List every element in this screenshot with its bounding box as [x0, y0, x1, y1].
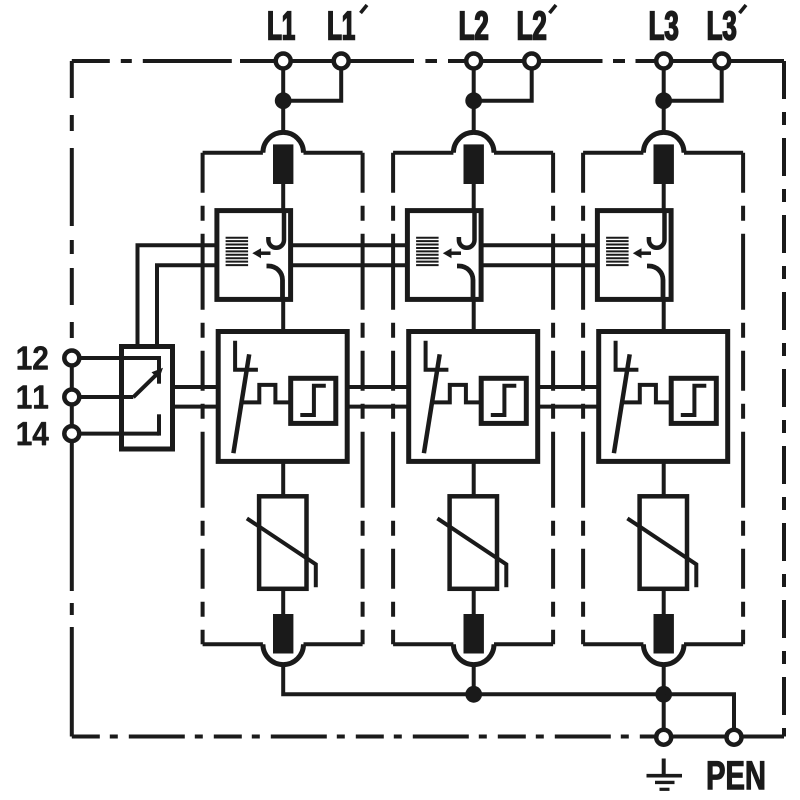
wire module 1 top rail right [304, 151, 363, 155]
wire module 3 top rail right [684, 151, 743, 155]
trigger bus lower wire: spark gap 1 to spark gap 2 [291, 263, 408, 267]
wire bottom disconnector to PEN bus [472, 665, 476, 695]
wire module 3 bottom rail right [684, 642, 743, 646]
trigger bus upper wire: remote box to spark gap 1 [138, 245, 217, 346]
label L1' [329, 12, 355, 40]
device border top edge [72, 59, 240, 63]
spark gap arc-quenching plates [416, 238, 439, 265]
spark gap arc-quenching plates [226, 238, 249, 265]
monitoring/disconnector box module 2 [409, 332, 538, 462]
signal bus lower wire: box 2 to box 3 [538, 405, 599, 409]
disconnect switch blade [614, 354, 630, 453]
wire disconnector box to varistor [472, 461, 476, 496]
junction node module 2 on PEN bus [465, 686, 482, 703]
terminal L1 [276, 54, 291, 69]
step function symbol [491, 386, 517, 415]
step function symbol [300, 386, 326, 415]
trigger bus lower wire: remote box to spark gap 1 [157, 265, 217, 346]
terminal L2 [466, 54, 481, 69]
terminal 14 [64, 426, 79, 441]
monitoring/disconnector box module 1 [218, 332, 347, 462]
wire L3' terminal to junction [664, 68, 722, 101]
wire module 1 to PEN bus and down to PEN terminal [283, 665, 734, 728]
label 12 [18, 346, 48, 369]
trigger bus upper wire: spark gap 2 to spark gap 3 [481, 243, 597, 247]
disconnect switch blade [424, 354, 440, 453]
varistor module 2: diagonal stroke [437, 518, 506, 587]
wire disconnector box to varistor [662, 461, 666, 496]
module 1 frame right edge [361, 153, 365, 645]
label L2 [460, 11, 487, 39]
trigger unit box module 1 [291, 378, 336, 423]
spark gap box module 1 [217, 211, 291, 300]
top disconnector module 3: bypass arc [643, 132, 684, 152]
varistor module 1: diagonal stroke [247, 518, 316, 587]
wire PEN bus to earth terminal [662, 694, 666, 728]
bottom disconnector module 3: element [654, 614, 674, 654]
spark gap upper electrode [459, 212, 475, 248]
surge impulse line [622, 385, 671, 403]
earth terminal [656, 730, 671, 745]
contact 12 fixed end [157, 356, 161, 384]
step function symbol [681, 386, 707, 415]
surge impulse line [242, 385, 291, 403]
disconnect switch fixed contact [235, 341, 258, 370]
trigger unit box module 3 [671, 378, 716, 423]
surge impulse line [432, 385, 481, 403]
wire L1 terminal to junction [281, 67, 285, 101]
device border left edge [70, 61, 74, 348]
wire module 2 bottom rail left [393, 642, 453, 646]
terminal 12 [64, 351, 79, 366]
spark gap box module 2 [407, 211, 481, 300]
top disconnector module 1: element [273, 144, 293, 184]
spark gap trigger arrow [252, 248, 270, 258]
monitoring/disconnector box module 3 [599, 332, 728, 462]
bottom disconnector module 1: element [273, 614, 293, 654]
trigger bus upper wire: spark gap 1 to spark gap 2 [291, 243, 408, 247]
signal bus upper wire: box 1 to box 2 [347, 385, 409, 389]
junction node L2 [465, 92, 482, 109]
terminal L3 [656, 54, 671, 69]
label L2' [518, 11, 545, 39]
wire spark gap to disconnector box [662, 299, 666, 331]
module 3 frame left edge [581, 153, 585, 645]
wire varistor to bottom disconnector [662, 589, 666, 614]
wire module 2 top rail left [393, 151, 453, 155]
disconnect switch blade [233, 354, 249, 453]
device border right edge [782, 61, 786, 737]
wire module 1 bottom rail right [304, 642, 363, 646]
spark gap upper electrode [649, 212, 665, 248]
signal bus lower wire: box 1 to box 2 [347, 405, 409, 409]
wire module 1 bottom rail left [203, 642, 263, 646]
wire top disconnector to spark gap [281, 184, 285, 213]
wire L1' terminal to junction [283, 68, 341, 101]
label L1 [269, 12, 295, 40]
label 14 [18, 422, 49, 445]
junction node module 3 on PEN bus [655, 686, 672, 703]
changeover contact blade with arrow [133, 368, 163, 397]
signal bus upper wire: remote box to box 1 [173, 385, 219, 389]
bottom disconnector module 2: bypass arc [453, 644, 494, 664]
wire terminal 14 to contact [80, 432, 160, 436]
varistor module 3: diagonal stroke [627, 518, 696, 587]
bottom disconnector module 1: bypass arc [263, 644, 304, 664]
wire varistor to bottom disconnector [281, 589, 285, 614]
spark gap upper electrode [268, 212, 284, 248]
wire L2' terminal to junction [474, 68, 532, 101]
signal bus upper wire: box 2 to box 3 [538, 385, 599, 389]
disconnect switch fixed contact [616, 341, 639, 370]
junction node L1 [275, 92, 292, 109]
wire L3 terminal to junction [662, 67, 666, 101]
wire spark gap to disconnector box [281, 299, 285, 331]
wire junction to top disconnector [662, 101, 666, 133]
spark gap box module 3 [597, 211, 671, 300]
spark gap lower electrode [457, 266, 473, 299]
module 2 frame right edge [551, 153, 555, 645]
remote signalling contact box [122, 347, 173, 450]
terminal L1' [334, 54, 349, 69]
wire top disconnector to spark gap [472, 184, 476, 213]
varistor module 1: body [259, 496, 306, 589]
terminal L3' [714, 54, 729, 69]
varistor module 3: body [640, 496, 687, 589]
terminal L2' [524, 54, 539, 69]
trigger bus lower wire: spark gap 2 to spark gap 3 [481, 263, 597, 267]
spark gap lower electrode [267, 266, 283, 299]
spark gap trigger arrow [633, 248, 651, 258]
spark gap trigger arrow [443, 248, 461, 258]
wire junction to top disconnector [472, 101, 476, 133]
wire junction to top disconnector [281, 101, 285, 133]
contact 14 open end [157, 414, 161, 435]
wire disconnector box to varistor [281, 461, 285, 496]
label L3 [650, 11, 677, 40]
wire module 2 bottom rail right [494, 642, 553, 646]
module 1 frame left edge [201, 153, 205, 645]
wire module 1 top rail left [203, 151, 263, 155]
spark gap lower electrode [647, 266, 663, 299]
wire module 3 bottom rail left [583, 642, 643, 646]
label 11 [18, 386, 48, 409]
wire varistor to bottom disconnector [472, 589, 476, 614]
label L3' [708, 11, 735, 40]
wire module 3 top rail left [583, 151, 643, 155]
wire bottom disconnector to PEN bus [662, 665, 666, 695]
trigger unit box module 2 [481, 378, 526, 423]
terminal 11 [64, 390, 79, 405]
top disconnector module 2: element [464, 144, 484, 184]
disconnect switch fixed contact [426, 341, 449, 370]
wire spark gap to disconnector box [472, 299, 476, 331]
device border bottom edge [72, 735, 654, 739]
top disconnector module 1: bypass arc [263, 132, 304, 152]
bottom disconnector module 3: bypass arc [643, 644, 684, 664]
earth ground symbol [647, 759, 683, 790]
top disconnector module 3: element [654, 144, 674, 184]
module 2 frame left edge [391, 153, 395, 645]
wire L2 terminal to junction [472, 67, 476, 101]
label PEN [708, 761, 764, 789]
module 3 frame right edge [741, 153, 745, 645]
wire top disconnector to spark gap [662, 184, 666, 213]
varistor module 2: body [450, 496, 497, 589]
junction node L3 [655, 92, 672, 109]
wire terminal 12 to contact [80, 356, 160, 360]
wire terminal 11 to contact [80, 395, 134, 399]
wire module 2 top rail right [494, 151, 553, 155]
bottom disconnector module 2: element [464, 614, 484, 654]
spark gap arc-quenching plates [606, 238, 629, 265]
top disconnector module 2: bypass arc [453, 132, 494, 152]
PEN terminal [727, 730, 742, 745]
signal bus lower wire: remote box to box 1 [173, 405, 219, 409]
